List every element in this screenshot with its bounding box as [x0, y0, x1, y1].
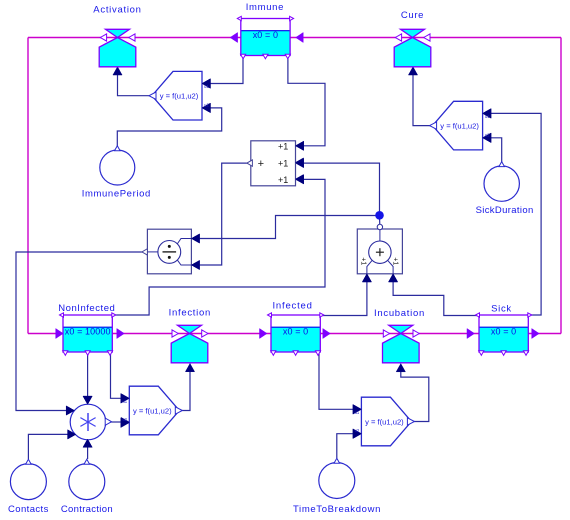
svg-text:Immune: Immune [246, 2, 284, 13]
svg-text:+: + [258, 158, 264, 170]
svg-text:u1: u1 [122, 399, 127, 404]
svg-text:u1: u1 [485, 114, 490, 119]
svg-text:u1: u1 [204, 84, 209, 89]
svg-text:u1: u1 [355, 410, 360, 415]
svg-text:+1: +1 [278, 142, 288, 152]
svg-text:y = f(u1,u2): y = f(u1,u2) [160, 92, 199, 101]
svg-text:x0 = 0: x0 = 0 [253, 30, 278, 40]
svg-text:u2: u2 [204, 102, 209, 107]
svg-text:Cure: Cure [401, 10, 424, 21]
svg-text:x0 = 10000: x0 = 10000 [65, 327, 111, 337]
svg-text:x0 = 0: x0 = 0 [283, 327, 308, 337]
svg-text:+1: +1 [360, 257, 367, 265]
svg-text:Infected: Infected [272, 301, 312, 312]
svg-text:y = f(u1,u2): y = f(u1,u2) [133, 407, 172, 416]
svg-text:SickDuration: SickDuration [476, 205, 534, 216]
svg-text:u2: u2 [122, 417, 127, 422]
svg-text:y = f(u1,u2): y = f(u1,u2) [440, 122, 479, 131]
svg-text:u2: u2 [355, 428, 360, 433]
svg-text:+1: +1 [278, 158, 288, 168]
svg-text:y = f(u1,u2): y = f(u1,u2) [365, 418, 404, 427]
svg-text:u2: u2 [485, 132, 490, 137]
svg-text:+1: +1 [391, 257, 398, 265]
svg-text:x0 = 0: x0 = 0 [491, 327, 516, 337]
svg-text:Sick: Sick [491, 304, 512, 315]
svg-text:Contacts: Contacts [8, 504, 49, 515]
svg-text:+1: +1 [278, 175, 288, 185]
svg-text:Contraction: Contraction [61, 504, 113, 515]
svg-text:Activation: Activation [93, 4, 141, 15]
svg-text:TimeToBreakdown: TimeToBreakdown [293, 504, 381, 515]
svg-text:ImmunePeriod: ImmunePeriod [82, 189, 151, 200]
svg-text:NonInfected: NonInfected [58, 303, 115, 314]
svg-text:Incubation: Incubation [374, 308, 425, 319]
svg-text:Infection: Infection [169, 307, 211, 318]
